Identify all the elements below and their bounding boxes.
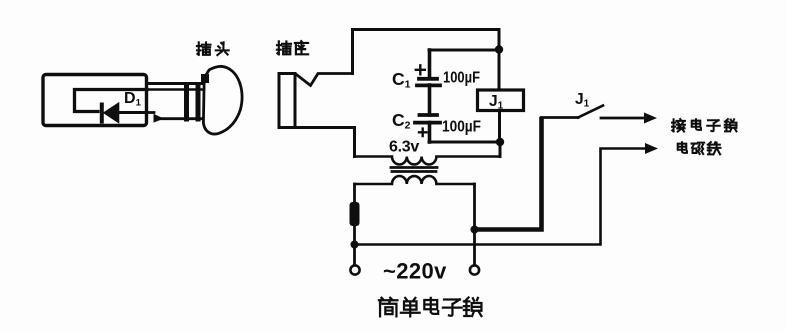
transformer core bars — [391, 168, 437, 172]
plug body outer shell — [43, 75, 147, 126]
wire relay feed upper — [498, 50, 501, 91]
plus sign of C1 — [416, 65, 425, 74]
wire thick feed to switch — [475, 119, 542, 230]
terminal circle left — [350, 265, 359, 274]
svg-text:6.3v: 6.3v — [389, 139, 419, 156]
wire switch left contact — [542, 118, 579, 120]
plug bell cap — [203, 66, 242, 134]
wire primary right drop — [473, 184, 476, 265]
capacitor C2 — [415, 115, 440, 123]
socket faceplate — [279, 74, 295, 128]
wire between C1 and C2 — [428, 85, 432, 115]
wire (inner loop, right of diode) — [118, 111, 147, 114]
plug collar bar 1 — [184, 82, 189, 122]
label 插座 (socket) — [277, 41, 308, 54]
wire capacitor branch lower — [428, 123, 432, 143]
wire relay feed lower — [498, 111, 501, 143]
terminal circle right — [470, 265, 479, 274]
plug neck rail (top outer) — [147, 82, 203, 85]
fuse on left mains lead — [350, 202, 360, 226]
arrowhead on plug cord wire — [154, 114, 164, 123]
plug neck rail (bottom, with step) — [147, 113, 202, 119]
diode D1 — [102, 104, 118, 121]
wire from socket top with V notch — [297, 74, 353, 86]
wire switch right contact — [601, 117, 646, 120]
node: junction dot left mains — [351, 241, 359, 249]
svg-text:100µF: 100µF — [443, 70, 480, 87]
arrowhead to electromagnet — [645, 143, 658, 154]
wire junction to secondary right — [499, 142, 502, 157]
title 简单电子锁 (simple electronic lock) — [379, 298, 482, 317]
plus sign of C2 — [419, 129, 427, 137]
plug neck rail (top inner) — [147, 88, 203, 91]
wire top of capacitor branch — [429, 49, 499, 52]
wire primary left drop — [353, 184, 356, 265]
plug collar bar 2 — [196, 82, 201, 122]
svg-text:100µF: 100µF — [442, 119, 481, 136]
capacitor C1 — [417, 79, 440, 86]
label 接电子锁 (to electronic lock) — [672, 119, 736, 132]
wire socket bottom to transformer left — [279, 128, 355, 157]
plug inner wire loop — [75, 90, 148, 112]
switch blade J1 — [578, 106, 603, 118]
label 电磁铁 (electromagnet) — [678, 142, 721, 154]
label 插头 (plug) — [197, 42, 229, 55]
relay coil J1 — [478, 90, 524, 111]
wire top loop (left riser / top run / right drop) — [353, 30, 500, 74]
node: junction dot top right — [495, 45, 503, 53]
arrowhead to electronic lock — [644, 113, 657, 124]
node: junction dot at relay bottom — [496, 138, 504, 146]
transformer secondary winding (6.3v) — [355, 157, 501, 165]
transformer primary winding — [355, 176, 475, 184]
wire bottom of capacitor branch — [429, 141, 500, 144]
wire capacitor branch upper — [428, 50, 432, 77]
node: junction dot right mains — [471, 226, 479, 234]
wire lower output (mains neutral run) — [355, 149, 648, 245]
bell corner blob — [201, 74, 209, 83]
svg-text:~220v: ~220v — [383, 259, 447, 284]
